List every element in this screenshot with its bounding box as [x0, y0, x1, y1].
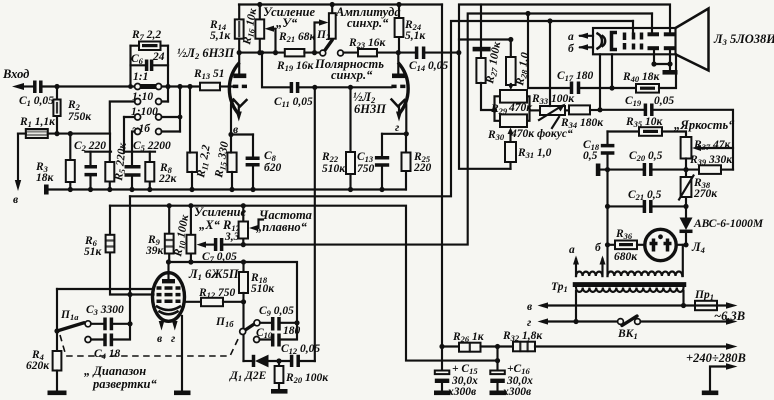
R10 wiper arrow + capacitor C7 — [197, 242, 207, 248]
svg-text:R21 68к: R21 68к — [278, 31, 317, 44]
Л1 screen lead to R12 — [185, 301, 202, 303]
Л2a anode — [233, 74, 246, 79]
capacitor C4 — [91, 324, 130, 340]
svg-text:39к: 39к — [145, 245, 165, 257]
svg-text:х300в: х300в — [502, 386, 531, 398]
winding rectifier — [608, 272, 683, 277]
wire divider tap A — [85, 134, 111, 152]
potentiometer R17 — [241, 203, 246, 208]
resistor R27 — [480, 51, 482, 58]
wire lower plates to ground — [654, 50, 670, 70]
Л2b grid — [391, 85, 405, 89]
resistor R14 — [238, 5, 240, 20]
wire C1 to attenuator — [42, 85, 135, 87]
switch П1а blade — [57, 323, 84, 331]
resistor R25 — [405, 134, 407, 190]
svg-text:220: 220 — [413, 162, 432, 174]
primary winding leads — [576, 291, 684, 322]
wire timing node vertical — [129, 196, 131, 323]
Л2b cathode — [392, 100, 405, 107]
svg-text:3,3: 3,3 — [224, 231, 240, 243]
svg-text:„У“: „У“ — [276, 16, 298, 30]
R16 wiper arrow — [265, 26, 275, 32]
svg-text:развертки“: развертки“ — [92, 377, 157, 391]
wire sync line down — [314, 87, 316, 361]
capacitor C1 — [35, 81, 41, 94]
svg-text:22к: 22к — [158, 173, 178, 185]
svg-text:г: г — [395, 122, 399, 134]
resistor R38 (with slash) — [685, 159, 687, 207]
wire heater line г with ВК1 — [538, 318, 549, 324]
tube Л2b envelope — [398, 63, 408, 116]
attenuator box rails — [131, 46, 169, 102]
svg-text:С14 0,05: С14 0,05 — [409, 60, 448, 73]
resistor R9 — [167, 203, 172, 208]
Л2b anode — [392, 74, 405, 79]
svg-text:Л3 5ЛО38И: Л3 5ЛО38И — [713, 32, 774, 47]
svg-text:Д1 Д2Е: Д1 Д2Е — [229, 370, 267, 383]
transformer core — [574, 283, 685, 285]
svg-text:R1 1,1к: R1 1,1к — [19, 116, 56, 129]
svg-text:С9 0,05: С9 0,05 — [259, 305, 294, 318]
Л2b heater arrow г — [396, 112, 402, 122]
resistor R3 — [69, 134, 71, 190]
svg-text:R20 100к: R20 100к — [285, 372, 329, 385]
net в down arrow at left — [17, 134, 19, 181]
wire oscillator grid line — [57, 288, 153, 290]
svg-text:Вход: Вход — [2, 67, 29, 81]
ground terminal bar — [44, 185, 49, 195]
wire Л2b cathode row — [382, 133, 406, 135]
winding heater а-б — [576, 272, 602, 276]
svg-text:½Л2 6Н3П: ½Л2 6Н3П — [177, 46, 236, 61]
svg-text:б20: б20 — [264, 162, 281, 174]
svg-text:С20 0,5: С20 0,5 — [629, 150, 663, 163]
svg-text:С4 18: С4 18 — [94, 348, 121, 361]
resistor R28 — [508, 37, 513, 42]
capacitor C8 — [252, 135, 254, 190]
svg-text:1:1: 1:1 — [133, 71, 148, 83]
svg-text:18к: 18к — [36, 172, 55, 184]
svg-text:R7 2,2: R7 2,2 — [131, 29, 161, 42]
Л1 grids — [157, 286, 181, 290]
svg-text:синхр.“: синхр.“ — [347, 16, 389, 30]
svg-text:„ Диапазон: „ Диапазон — [84, 364, 146, 378]
Л1 cathode arcs — [157, 307, 180, 311]
ground R4 — [48, 391, 67, 396]
wire divider tap B — [124, 151, 155, 153]
resistor R31 — [508, 128, 514, 135]
capacitor C13 — [381, 134, 383, 190]
wire C19 row — [597, 107, 602, 112]
svg-text:в: в — [157, 333, 162, 345]
resistor R19 — [285, 49, 305, 56]
capacitor C15 electrolytic — [441, 347, 443, 371]
switch П1а pivot column — [56, 289, 58, 351]
switch П1б blade — [243, 324, 255, 332]
resistor R6 — [110, 206, 130, 295]
mechanical link dashed line — [60, 335, 240, 356]
svg-text:R19 16к: R19 16к — [276, 60, 315, 73]
svg-text:270к: 270к — [693, 188, 718, 200]
wire stage B+ line — [110, 206, 498, 361]
CRT funnel — [676, 9, 709, 71]
tube Л1 envelope — [153, 273, 185, 322]
svg-text:в: в — [13, 194, 18, 206]
chassis output marker — [710, 367, 729, 391]
wire plate drops — [633, 14, 652, 33]
svg-text:С5 2200: С5 2200 — [133, 140, 171, 153]
svg-text:510к: 510к — [251, 283, 275, 295]
svg-text:С11 0,05: С11 0,05 — [274, 96, 313, 109]
svg-text:АВС-6-1000М: АВС-6-1000М — [693, 218, 764, 230]
wire Л2a cathode row — [231, 133, 253, 135]
svg-text:„Яркость“: „Яркость“ — [674, 118, 735, 132]
svg-text:51к: 51к — [84, 246, 103, 258]
svg-text:С17 180: С17 180 — [557, 70, 594, 83]
svg-text:г: г — [527, 317, 531, 329]
svg-text:х300в: х300в — [447, 386, 476, 398]
potentiometer R30 — [500, 114, 527, 127]
svg-text:510к: 510к — [322, 163, 346, 175]
svg-text:R31 1,0: R31 1,0 — [517, 147, 552, 160]
CRT grid cylinder — [612, 33, 618, 50]
capacitor C18 on supply column — [606, 132, 608, 277]
svg-text:а: а — [568, 31, 574, 43]
closed contact bar 1:1 — [141, 84, 157, 89]
svg-text:6Н3П: 6Н3П — [354, 102, 387, 116]
Л1 grid lead (from range switch) continues — [130, 293, 154, 295]
wire R28 feed — [459, 40, 511, 169]
wire R35 row — [608, 130, 640, 132]
potentiometer R37 — [681, 137, 692, 159]
resistor R4 — [53, 351, 62, 371]
capacitor C6 — [131, 64, 169, 66]
ground bus — [46, 188, 406, 190]
wire sweep output line — [130, 21, 633, 196]
wire C21 row — [605, 204, 610, 209]
CRT heater arrows а б — [580, 36, 593, 48]
wire X-plate line — [243, 14, 652, 245]
diode Д1 Д2Е — [244, 360, 254, 362]
capacitor C11 coupling — [262, 53, 290, 88]
wire C20 row — [596, 164, 601, 177]
wire Y-plate top bus — [459, 5, 670, 40]
resistor R18 — [242, 262, 244, 272]
wire gun cathode drops — [600, 54, 612, 110]
svg-text:„плавно“: „плавно“ — [256, 220, 308, 234]
Л1 heater arrows в г — [159, 321, 165, 331]
resistor R34 — [565, 109, 569, 111]
svg-text:С2 220: С2 220 — [74, 140, 106, 153]
wire B+ top bus (left segment) — [239, 3, 442, 5]
svg-text:470к фокус“: 470к фокус“ — [510, 128, 573, 140]
svg-text:в: в — [527, 301, 532, 313]
CRT anode electrodes — [623, 33, 627, 50]
svg-text:синхр.“: синхр.“ — [331, 68, 373, 82]
wire C17 branch — [525, 11, 530, 16]
wire heater line в — [538, 302, 549, 308]
wire Л2a anode row — [239, 52, 285, 54]
svg-text:5,1к: 5,1к — [405, 30, 426, 42]
svg-text:680к: 680к — [614, 251, 638, 263]
terminal bar above R27 — [480, 5, 482, 47]
svg-text:470к: 470к — [508, 102, 533, 114]
svg-text:R40 18к: R40 18к — [622, 71, 661, 84]
tube Л4 — [645, 229, 676, 260]
wire +240 rail — [439, 344, 444, 349]
svg-text:750к: 750к — [68, 111, 92, 123]
svg-text:Усиление: Усиление — [194, 205, 246, 219]
svg-text:С12 0,05: С12 0,05 — [281, 343, 320, 356]
rectifier winding leads — [682, 245, 684, 276]
svg-text:+240÷280В: +240÷280В — [686, 351, 746, 365]
wire oscillator anode row — [169, 262, 298, 323]
resistor R5 — [109, 152, 111, 190]
svg-text:С3 3300: С3 3300 — [86, 304, 124, 317]
svg-text:Л1 6Ж5П: Л1 6Ж5П — [188, 267, 240, 282]
input arrow — [12, 83, 24, 90]
tube Л2a envelope — [229, 63, 239, 116]
Л2a heater arrow в — [236, 112, 242, 122]
potentiometer R10 (Усиление X) — [188, 203, 193, 208]
Л2a cathode — [234, 100, 247, 107]
svg-text:R33 100к: R33 100к — [531, 93, 575, 106]
wire input to C1 — [22, 85, 34, 87]
capacitor C5 — [124, 117, 132, 190]
svg-text:24: 24 — [152, 51, 165, 63]
svg-text:5,1к: 5,1к — [210, 30, 231, 42]
resistor R22 — [348, 85, 353, 90]
amplitude pot wiper arrow — [319, 19, 329, 25]
svg-text:0,05: 0,05 — [654, 95, 674, 107]
resistor R2 — [56, 87, 58, 134]
potentiometer R33 (фокус) — [530, 109, 541, 111]
CRT gun box — [593, 28, 676, 54]
CRT heater arcs — [598, 34, 603, 49]
switch П1б column — [242, 293, 244, 361]
svg-text:620к: 620к — [26, 360, 50, 372]
Л1 cathode ground — [181, 316, 183, 391]
Л1 anode — [162, 279, 175, 283]
Л2a grid — [233, 85, 247, 89]
svg-text:R34 180к: R34 180к — [560, 117, 604, 130]
R37 wiper arrow — [692, 145, 701, 151]
svg-text:750: 750 — [357, 163, 375, 175]
wire rectifier heater row — [605, 242, 610, 247]
switch П2 blade — [324, 40, 332, 52]
potentiometer R29 — [495, 96, 501, 121]
resistor R20 — [276, 358, 281, 363]
switch ВК1 — [618, 319, 624, 325]
winding primary — [576, 288, 684, 292]
node sync line junction — [312, 85, 317, 90]
heater winding arrows а б — [576, 259, 603, 276]
capacitor C14 — [417, 47, 424, 60]
node input junction — [54, 84, 59, 89]
CRT deflection plates — [648, 32, 660, 36]
svg-text:0,5: 0,5 — [583, 150, 598, 162]
wire B+ feed down to filter — [441, 5, 443, 347]
wire R1 row — [18, 133, 110, 135]
diode АВС-6-1000М — [685, 206, 687, 218]
capacitor C2 — [89, 152, 91, 190]
wire attenuator output — [162, 85, 200, 87]
svg-text:С1 0,05: С1 0,05 — [19, 95, 54, 108]
resistor R8 — [149, 152, 151, 190]
capacitor C16 electrolytic — [496, 347, 498, 371]
R17 wiper arrow — [249, 225, 258, 231]
svg-text:а: а — [569, 244, 575, 256]
svg-text:г: г — [171, 333, 175, 345]
